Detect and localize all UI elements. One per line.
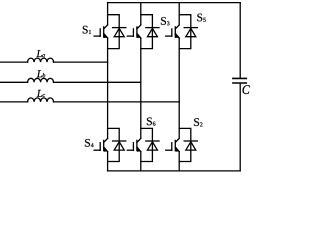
transistor S4 (IGBT) — [94, 138, 108, 151]
transistor S2 (IGBT) — [166, 138, 180, 151]
label C — [243, 85, 250, 94]
wire phase b — [1, 81, 141, 83]
wire leg 3 upper — [178, 3, 180, 25]
wire phase a — [1, 61, 108, 63]
label S4 — [85, 139, 94, 147]
wire leg 1 upper — [107, 3, 109, 25]
inductor Lc — [28, 98, 54, 102]
wire leg 3 middle — [178, 38, 180, 138]
diode D3 (antiparallel of S3) — [141, 15, 159, 49]
label S6 — [147, 117, 155, 125]
inductor La — [28, 58, 54, 62]
label S1 — [83, 26, 91, 34]
label Lc — [37, 90, 45, 97]
label Lb — [37, 70, 45, 77]
wire right bus to capacitor — [239, 3, 241, 171]
wire leg 3 lower — [178, 152, 180, 171]
wire leg 1 middle — [107, 38, 109, 138]
capacitor C — [233, 78, 246, 83]
transistor S3 (IGBT) — [127, 25, 141, 38]
label S5 — [197, 14, 205, 22]
label La — [36, 50, 44, 57]
transistor S6 (IGBT) — [127, 138, 141, 151]
wire leg 2 upper — [140, 3, 142, 25]
wire bottom DC rail — [108, 170, 241, 172]
inductor Lb — [28, 78, 54, 82]
diode D2 (antiparallel of S2) — [179, 128, 197, 161]
diode D5 (antiparallel of S5) — [179, 15, 197, 49]
wire phase c — [1, 101, 180, 103]
wire leg 1 lower — [107, 152, 109, 171]
diode D4 (antiparallel of S4) — [108, 128, 126, 161]
diode D6 (antiparallel of S6) — [141, 128, 159, 161]
wire leg 2 middle — [140, 38, 142, 138]
transistor S5 (IGBT) — [166, 25, 180, 38]
wire top DC rail — [108, 2, 241, 4]
wire leg 2 lower — [140, 152, 142, 171]
transistor S1 (IGBT) — [94, 25, 108, 38]
diode D1 (antiparallel of S1) — [108, 15, 126, 49]
label S2 — [194, 118, 202, 126]
label S3 — [161, 17, 169, 25]
